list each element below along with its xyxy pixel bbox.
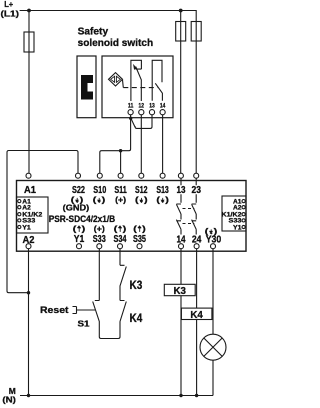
- svg-text:(+): (+): [94, 224, 105, 233]
- svg-text:(N): (N): [2, 395, 16, 405]
- svg-text:K4: K4: [190, 309, 203, 321]
- svg-text:A2: A2: [233, 205, 242, 212]
- svg-text:Safety: Safety: [78, 25, 109, 37]
- svg-text:S34: S34: [114, 234, 127, 245]
- svg-text:Y1: Y1: [74, 234, 85, 245]
- svg-text:A2: A2: [23, 235, 35, 246]
- svg-text:11: 11: [128, 102, 134, 109]
- svg-text:Y1: Y1: [22, 224, 31, 231]
- svg-text:A2: A2: [22, 205, 31, 212]
- svg-text:K3: K3: [130, 280, 143, 292]
- svg-text:24: 24: [192, 234, 202, 245]
- svg-text:S1: S1: [78, 319, 90, 329]
- svg-text:PSR-SDC4/2x1/B: PSR-SDC4/2x1/B: [49, 214, 116, 224]
- svg-text:(L1): (L1): [1, 8, 20, 18]
- svg-text:K4: K4: [130, 313, 143, 325]
- svg-text:solenoid switch: solenoid switch: [78, 37, 154, 49]
- svg-text:(GND): (GND): [63, 203, 90, 213]
- svg-text:S10: S10: [93, 185, 106, 196]
- svg-text:23: 23: [191, 185, 201, 196]
- svg-text:13: 13: [149, 102, 155, 109]
- svg-text:S11: S11: [114, 185, 127, 196]
- svg-text:Reset: Reset: [40, 305, 69, 315]
- svg-text:A1: A1: [24, 185, 36, 196]
- svg-text:13: 13: [177, 185, 186, 196]
- svg-text:S33: S33: [93, 234, 106, 245]
- svg-text:S13: S13: [156, 185, 169, 196]
- svg-text:Y1: Y1: [233, 224, 242, 231]
- svg-text:K3: K3: [173, 285, 186, 297]
- svg-text:14: 14: [177, 234, 186, 245]
- svg-text:S12: S12: [135, 185, 148, 196]
- svg-text:S22: S22: [72, 185, 85, 196]
- svg-text:Y30: Y30: [206, 234, 222, 245]
- svg-text:14: 14: [160, 102, 166, 109]
- svg-text:(+): (+): [115, 195, 126, 204]
- svg-text:S35: S35: [133, 234, 146, 245]
- svg-text:12: 12: [139, 102, 145, 109]
